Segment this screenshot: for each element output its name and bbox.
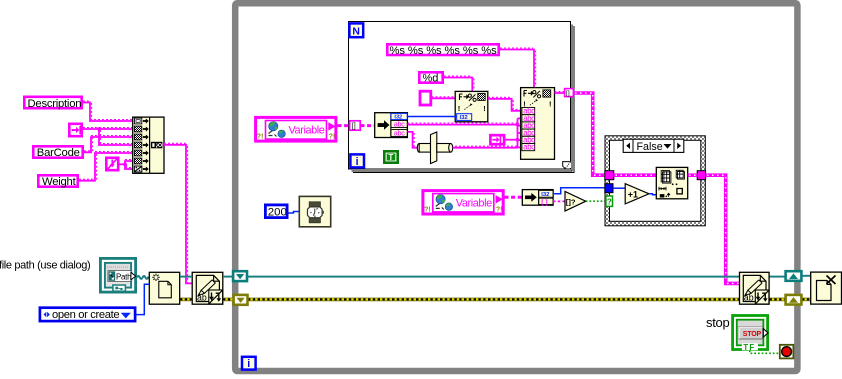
svg-text:[]?: []? bbox=[566, 198, 576, 207]
concat row 7 input icon bbox=[134, 166, 148, 172]
format into string node 1 bbox=[455, 91, 488, 121]
stop boolean terminal bbox=[733, 316, 768, 352]
shift register left olive bbox=[234, 295, 248, 305]
shift register right teal bbox=[786, 271, 802, 281]
wire tunnel to match node bbox=[361, 124, 375, 127]
teal refnum wire path control chain across loop bbox=[180, 275, 811, 278]
svg-text:Variable: Variable bbox=[456, 197, 492, 209]
wire scan array out to empty array node bbox=[553, 200, 565, 202]
replace array subset node bbox=[656, 167, 687, 198]
svg-text:abc: abc bbox=[394, 129, 405, 138]
svg-text:[]: [] bbox=[352, 123, 356, 130]
svg-text:False: False bbox=[637, 141, 663, 153]
shared variable node 2 bbox=[423, 191, 503, 214]
svg-text:[]: [] bbox=[566, 90, 570, 97]
wire variable1 to for loop tunnel bbox=[338, 124, 350, 127]
svg-text:!: ! bbox=[458, 104, 461, 113]
svg-text:200: 200 bbox=[268, 207, 287, 219]
wire empty array? to case selector bbox=[586, 200, 606, 202]
case structure border bbox=[605, 136, 705, 226]
svg-text:abc: abc bbox=[394, 120, 405, 129]
node2 abc row 5 bbox=[522, 136, 535, 145]
shift register right olive bbox=[786, 295, 802, 305]
svg-text:+1: +1 bbox=[628, 190, 638, 200]
wire match abc1 to node2 bbox=[408, 123, 520, 127]
string constant %s x6 bbox=[387, 44, 498, 57]
node2 abc row 4 bbox=[522, 128, 535, 137]
wire tab constant to node2 bbox=[505, 138, 519, 142]
svg-text:T: T bbox=[388, 153, 393, 162]
wire enum to open node bbox=[136, 284, 149, 314]
shared variable node 1 bbox=[256, 117, 336, 141]
end of line constant bbox=[106, 158, 118, 170]
svg-text:i: i bbox=[356, 156, 359, 168]
for loop iteration terminal i bbox=[350, 154, 364, 168]
wire concat output down to Write1 bbox=[164, 143, 192, 283]
svg-text:N: N bbox=[352, 26, 360, 37]
scan string to array node bbox=[522, 190, 553, 206]
close file node bbox=[811, 272, 842, 304]
wire replace array subset to right tunnel bbox=[688, 173, 698, 177]
svg-text:?!: ?! bbox=[329, 134, 336, 141]
wire I32 match node to format node1 bbox=[408, 116, 457, 118]
svg-text:ab: ab bbox=[197, 293, 207, 303]
string control Weight bbox=[38, 175, 77, 188]
svg-text:I32: I32 bbox=[460, 115, 469, 121]
node2 abc row 6 bbox=[522, 143, 535, 152]
wire 200 to wait node bbox=[289, 212, 300, 214]
svg-text:?: ? bbox=[607, 197, 612, 207]
wire BarCode to concat row3 bbox=[84, 136, 133, 153]
empty string constant bbox=[420, 91, 431, 105]
while loop iteration terminal i bbox=[242, 357, 256, 370]
wire empty string to format node 1 bbox=[432, 97, 456, 99]
wire blue tunnel to +1 bbox=[613, 187, 625, 189]
svg-text:%s %s %s %s %s %s: %s %s %s %s %s %s bbox=[390, 45, 498, 57]
wire %s constant to format node 2 bbox=[500, 48, 536, 87]
tab constant (upper) bbox=[69, 124, 81, 136]
wire spool to node2 bbox=[453, 146, 518, 148]
svg-text:BarCode: BarCode bbox=[37, 147, 80, 159]
svg-text:!: ! bbox=[549, 99, 552, 108]
empty array? node bbox=[565, 191, 586, 211]
wire Description to concat row1 bbox=[83, 101, 133, 121]
wire match abc2 to spool bbox=[408, 132, 418, 148]
format into string node 2 (expanded) bbox=[521, 88, 555, 160]
concat row 6 input icon bbox=[134, 158, 148, 164]
conditional terminal bbox=[780, 345, 794, 359]
for loop bbox=[349, 22, 575, 173]
while loop bbox=[235, 3, 797, 371]
error wire across loop bbox=[180, 298, 811, 302]
for loop left tunnel (auto-index) bbox=[350, 121, 361, 130]
wire scan I32 to case blue tunnel bbox=[553, 188, 605, 194]
wait ms node (watch) bbox=[299, 196, 330, 226]
svg-text:?!: ?! bbox=[424, 206, 431, 213]
numeric constant 200 bbox=[265, 205, 287, 219]
tab constant (in for loop) bbox=[490, 135, 504, 144]
wire case output down to write2 bbox=[706, 175, 740, 283]
string control BarCode bbox=[33, 146, 82, 159]
svg-text:?!: ?! bbox=[496, 206, 503, 213]
svg-text:[ ]: [ ] bbox=[541, 199, 547, 206]
svg-text:STOP: STOP bbox=[743, 331, 762, 338]
concat row 4 input icon bbox=[134, 142, 148, 148]
path control bbox=[100, 258, 135, 292]
case left input tunnel (array) bbox=[605, 171, 614, 180]
svg-text:Weight: Weight bbox=[42, 176, 77, 188]
wire variable2 to scan node bbox=[505, 196, 523, 199]
string constant %d bbox=[419, 72, 442, 84]
node2 abc row 2 bbox=[522, 114, 535, 123]
concat node center glyph bbox=[151, 142, 163, 149]
for loop count terminal N bbox=[349, 23, 363, 37]
svg-text:i: i bbox=[247, 358, 250, 370]
svg-text:stop: stop bbox=[706, 315, 729, 330]
svg-text:Description: Description bbox=[28, 98, 82, 110]
svg-text:?!: ?! bbox=[257, 134, 264, 141]
concat row 3 input icon bbox=[134, 134, 148, 140]
concat row 5 input icon bbox=[134, 150, 148, 156]
svg-text:open or create: open or create bbox=[52, 309, 119, 321]
wire Weight to concat row5 bbox=[79, 152, 133, 181]
enum constant open or create bbox=[40, 308, 135, 322]
wire tab constant to concat row2 and row4 bbox=[83, 127, 133, 145]
match/split string node bbox=[375, 113, 408, 138]
case blue tunnel bbox=[605, 184, 613, 193]
wire stop to conditional terminal bbox=[750, 350, 779, 353]
wire node2 out to for loop right tunnel bbox=[555, 92, 566, 94]
vertical junction wire into node2 rows bbox=[518, 118, 521, 147]
node2 abc row 1 bbox=[522, 107, 535, 116]
wire case input to replace array subset bbox=[614, 173, 656, 177]
node2 abc row 3 bbox=[522, 121, 535, 130]
true constant T bbox=[384, 151, 397, 162]
shift register left teal bbox=[233, 271, 247, 281]
wire format node1 output to node2 row1 bbox=[488, 97, 521, 111]
concat row 2 input icon bbox=[134, 126, 148, 132]
wire path control to open node (squiggle) bbox=[137, 276, 149, 279]
svg-text:%d: %d bbox=[423, 73, 439, 85]
svg-text:file path (use dialog): file path (use dialog) bbox=[0, 260, 90, 272]
svg-text:abc: abc bbox=[523, 143, 535, 152]
svg-text:Variable: Variable bbox=[289, 124, 325, 136]
increment +1 node bbox=[625, 184, 649, 204]
svg-text:I32: I32 bbox=[541, 192, 550, 198]
for loop right tunnel (auto-index out) bbox=[565, 89, 574, 97]
case right output tunnel bbox=[697, 171, 705, 180]
write to text file node (left) bbox=[192, 272, 223, 304]
spool (white space constant) bbox=[417, 132, 452, 164]
concatenate/format node (7 inputs) bbox=[133, 117, 164, 173]
svg-text:!: ! bbox=[483, 104, 486, 113]
case selector label False bbox=[623, 139, 684, 153]
open/create/replace file node bbox=[149, 272, 179, 304]
svg-text:ab: ab bbox=[744, 293, 754, 303]
wire %d to format node 1 bbox=[444, 76, 474, 91]
concat row 1 input icon bbox=[134, 118, 148, 124]
wire EOL constant to concat rows 6 and 7 bbox=[120, 160, 134, 170]
write to text file node (right) bbox=[740, 272, 770, 304]
wire for loop tunnel to case structure (array chain) bbox=[574, 93, 605, 175]
case selector tunnel ? bbox=[606, 196, 613, 207]
svg-text:Path: Path bbox=[116, 272, 131, 281]
string control Description bbox=[24, 97, 81, 110]
wire +1 to replace array subset bbox=[649, 194, 656, 195]
